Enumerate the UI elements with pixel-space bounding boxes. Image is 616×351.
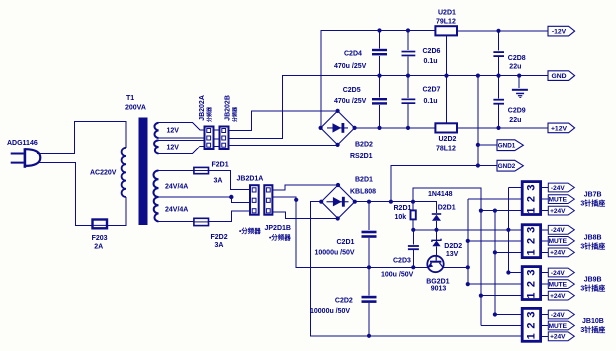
svg-text:MUTE: MUTE	[549, 238, 568, 245]
svg-text:-24V: -24V	[551, 227, 565, 234]
svg-text:分频器: 分频器	[206, 106, 213, 122]
svg-text:100u /50V: 100u /50V	[381, 272, 414, 279]
svg-text:F2D2: F2D2	[211, 234, 228, 241]
svg-text:+24V: +24V	[550, 250, 566, 257]
svg-text:200VA: 200VA	[125, 105, 146, 112]
svg-text:3针插座: 3针插座	[580, 283, 605, 292]
svg-text:3: 3	[525, 311, 537, 317]
svg-text:10000u /50V: 10000u /50V	[315, 249, 355, 256]
svg-text:22u: 22u	[509, 117, 521, 124]
svg-text:+24V: +24V	[550, 293, 566, 300]
svg-text:-24V: -24V	[551, 312, 565, 319]
svg-text:470u /25V: 470u /25V	[334, 63, 367, 70]
svg-text:3针插座: 3针插座	[580, 199, 605, 208]
svg-text:ADG1146: ADG1146	[7, 140, 38, 147]
svg-text:+24V: +24V	[550, 208, 566, 215]
svg-text:9013: 9013	[431, 286, 447, 293]
svg-text:+24V: +24V	[550, 334, 566, 341]
svg-text:3A: 3A	[215, 242, 224, 249]
svg-text:U2D2: U2D2	[439, 136, 457, 143]
svg-text:3针插座: 3针插座	[580, 241, 605, 250]
svg-text:F203: F203	[92, 235, 108, 242]
svg-text:JP2D1B: JP2D1B	[265, 225, 291, 232]
svg-text:分频器: 分频器	[232, 106, 239, 122]
svg-text:MUTE: MUTE	[549, 196, 568, 203]
svg-text:C2D5: C2D5	[343, 87, 361, 94]
svg-text:GND1: GND1	[498, 143, 516, 150]
svg-text:B2D2: B2D2	[355, 142, 373, 149]
svg-text:C2D6: C2D6	[423, 48, 441, 55]
svg-text:3: 3	[525, 227, 537, 233]
svg-text:22u: 22u	[509, 64, 521, 71]
svg-text:3: 3	[525, 184, 537, 190]
svg-text:KBL808: KBL808	[350, 188, 376, 195]
svg-text:JB202A: JB202A	[199, 95, 206, 121]
svg-text:2: 2	[525, 196, 537, 202]
svg-text:24V/4A: 24V/4A	[165, 207, 188, 214]
svg-text:12V: 12V	[167, 145, 180, 152]
svg-text:-12V: -12V	[552, 29, 567, 36]
svg-text:JB10B: JB10B	[582, 318, 604, 325]
svg-text:2: 2	[525, 281, 537, 287]
svg-text:JB8B: JB8B	[584, 235, 602, 242]
svg-text:0.1u: 0.1u	[424, 98, 438, 105]
svg-text:C2D7: C2D7	[423, 86, 441, 93]
svg-text:GND2: GND2	[498, 163, 516, 170]
svg-text:12V: 12V	[167, 128, 180, 135]
svg-text:C2D4: C2D4	[344, 51, 362, 58]
svg-text:R2D1: R2D1	[394, 205, 412, 212]
svg-text:D2D1: D2D1	[438, 205, 456, 212]
svg-text:+12V: +12V	[551, 125, 568, 132]
svg-text:470u /25V: 470u /25V	[334, 98, 367, 105]
svg-text:3针插座: 3针插座	[580, 325, 605, 334]
svg-text:24V/4A: 24V/4A	[165, 184, 188, 191]
svg-text:0.1u: 0.1u	[424, 58, 438, 65]
svg-text:JB7B: JB7B	[584, 192, 602, 199]
svg-text:C2D9: C2D9	[508, 107, 526, 114]
svg-text:•分频器: •分频器	[239, 226, 261, 235]
svg-text:1: 1	[525, 333, 537, 339]
svg-text:-24V: -24V	[551, 270, 565, 277]
svg-text:1N4148: 1N4148	[428, 191, 453, 198]
svg-text:1: 1	[525, 208, 537, 214]
svg-text:T1: T1	[126, 95, 134, 102]
svg-text:2A: 2A	[94, 244, 103, 251]
svg-text:C2D1: C2D1	[337, 239, 355, 246]
svg-text:C2D3: C2D3	[393, 258, 411, 265]
svg-text:3: 3	[525, 269, 537, 275]
svg-text:13V: 13V	[446, 251, 459, 258]
svg-text:MUTE: MUTE	[549, 323, 568, 330]
svg-text:2: 2	[525, 238, 537, 244]
svg-text:AC220V: AC220V	[90, 170, 117, 177]
svg-text:78L12: 78L12	[436, 146, 456, 153]
svg-text:1: 1	[525, 293, 537, 299]
svg-text:C2D2: C2D2	[335, 297, 353, 304]
svg-text:1: 1	[525, 249, 537, 255]
svg-text:3A: 3A	[214, 178, 223, 185]
svg-text:-24V: -24V	[551, 185, 565, 192]
svg-text:79L12: 79L12	[436, 19, 456, 26]
svg-text:MUTE: MUTE	[549, 281, 568, 288]
svg-text:10000u /50V: 10000u /50V	[310, 308, 350, 315]
svg-text:F2D1: F2D1	[212, 162, 229, 169]
svg-text:B2D1: B2D1	[355, 176, 373, 183]
svg-text:2: 2	[525, 322, 537, 328]
svg-text:•分频器: •分频器	[269, 233, 291, 242]
svg-text:JB2D1A: JB2D1A	[237, 176, 264, 183]
svg-text:U2D1: U2D1	[438, 9, 456, 16]
svg-text:GND: GND	[551, 73, 566, 80]
svg-text:C2D8: C2D8	[508, 55, 526, 62]
svg-text:RS2D1: RS2D1	[350, 153, 373, 160]
svg-text:10k: 10k	[395, 214, 407, 221]
svg-text:D2D2: D2D2	[444, 243, 462, 250]
svg-text:JB202B: JB202B	[225, 95, 232, 121]
svg-text:JB9B: JB9B	[584, 276, 602, 283]
